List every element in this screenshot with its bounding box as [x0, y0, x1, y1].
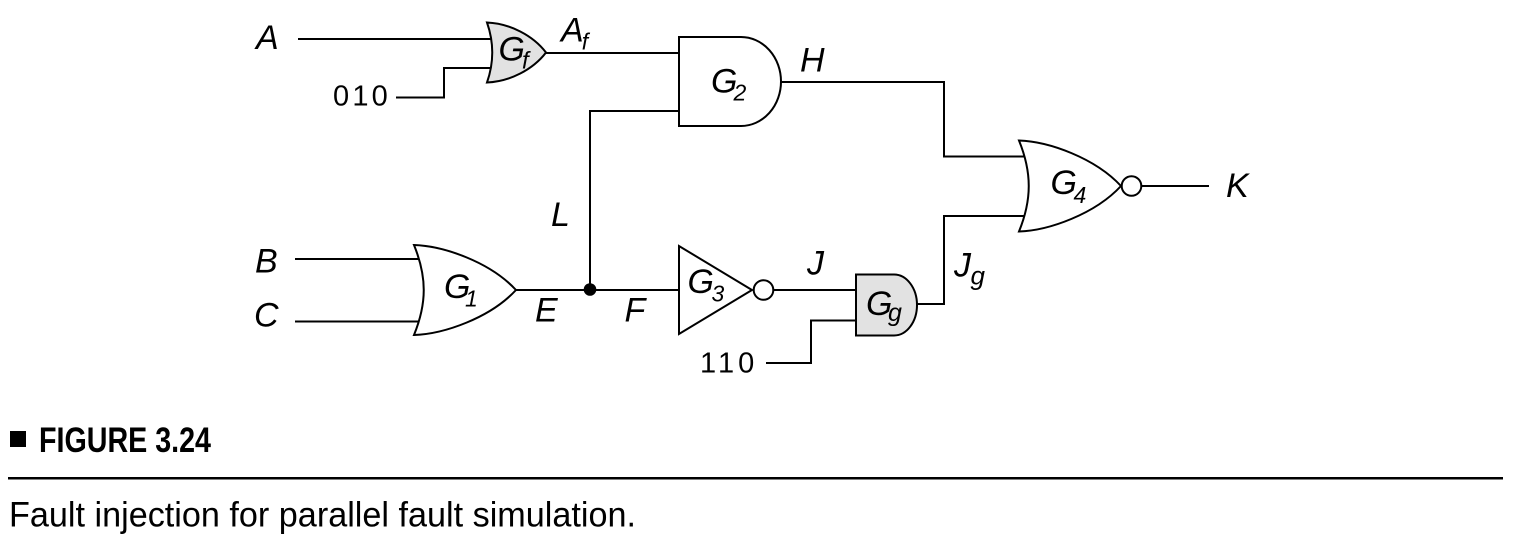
wire 110 step into Gg	[766, 321, 857, 364]
gate OR G1	[414, 245, 516, 335]
svg-text:A: A	[254, 19, 279, 57]
wire B input	[295, 258, 430, 260]
svg-text:L: L	[551, 196, 570, 234]
junction node F dot	[584, 283, 597, 296]
rule	[8, 477, 1503, 480]
svg-text:B: B	[255, 243, 278, 281]
wire A input	[298, 38, 496, 40]
gate NOR G4 body	[1019, 141, 1121, 232]
wire H from G2 down to G4 upper input	[781, 82, 1032, 157]
wire J from G3 bubble to Gg	[773, 289, 857, 291]
svg-text:F: F	[625, 292, 648, 330]
svg-text:C: C	[254, 297, 279, 335]
svg-text:110: 110	[700, 348, 758, 380]
gate NOT G3 bubble	[754, 280, 774, 300]
svg-text:E: E	[535, 292, 558, 330]
wire C input	[295, 321, 430, 323]
wire 010 step into Gf	[396, 68, 497, 98]
svg-text:K: K	[1226, 167, 1250, 205]
svg-text:Fault injection for parallel f: Fault injection for parallel fault simul…	[9, 496, 636, 535]
gate OR Gf (fault-injection, shaded)	[487, 23, 546, 83]
wire L vertical from node F up into G2	[590, 111, 680, 290]
gate AND G2	[679, 37, 781, 126]
figure bullet square	[10, 431, 26, 447]
svg-text:J: J	[806, 245, 825, 283]
wire K output	[1142, 185, 1210, 187]
gate AND Gg (fault-injection, shaded)	[856, 275, 917, 336]
svg-text:FIGURE 3.24: FIGURE 3.24	[39, 421, 211, 460]
gate NOT G3 triangle	[679, 246, 752, 334]
wire E-F from G1 to G3	[516, 289, 680, 291]
svg-text:H: H	[800, 42, 825, 80]
wire Af from Gf to G2	[546, 52, 680, 54]
svg-text:010: 010	[333, 81, 391, 113]
gate NOR G4 bubble	[1122, 176, 1142, 196]
wire Jg from Gg up to G4 lower input	[917, 216, 1032, 304]
